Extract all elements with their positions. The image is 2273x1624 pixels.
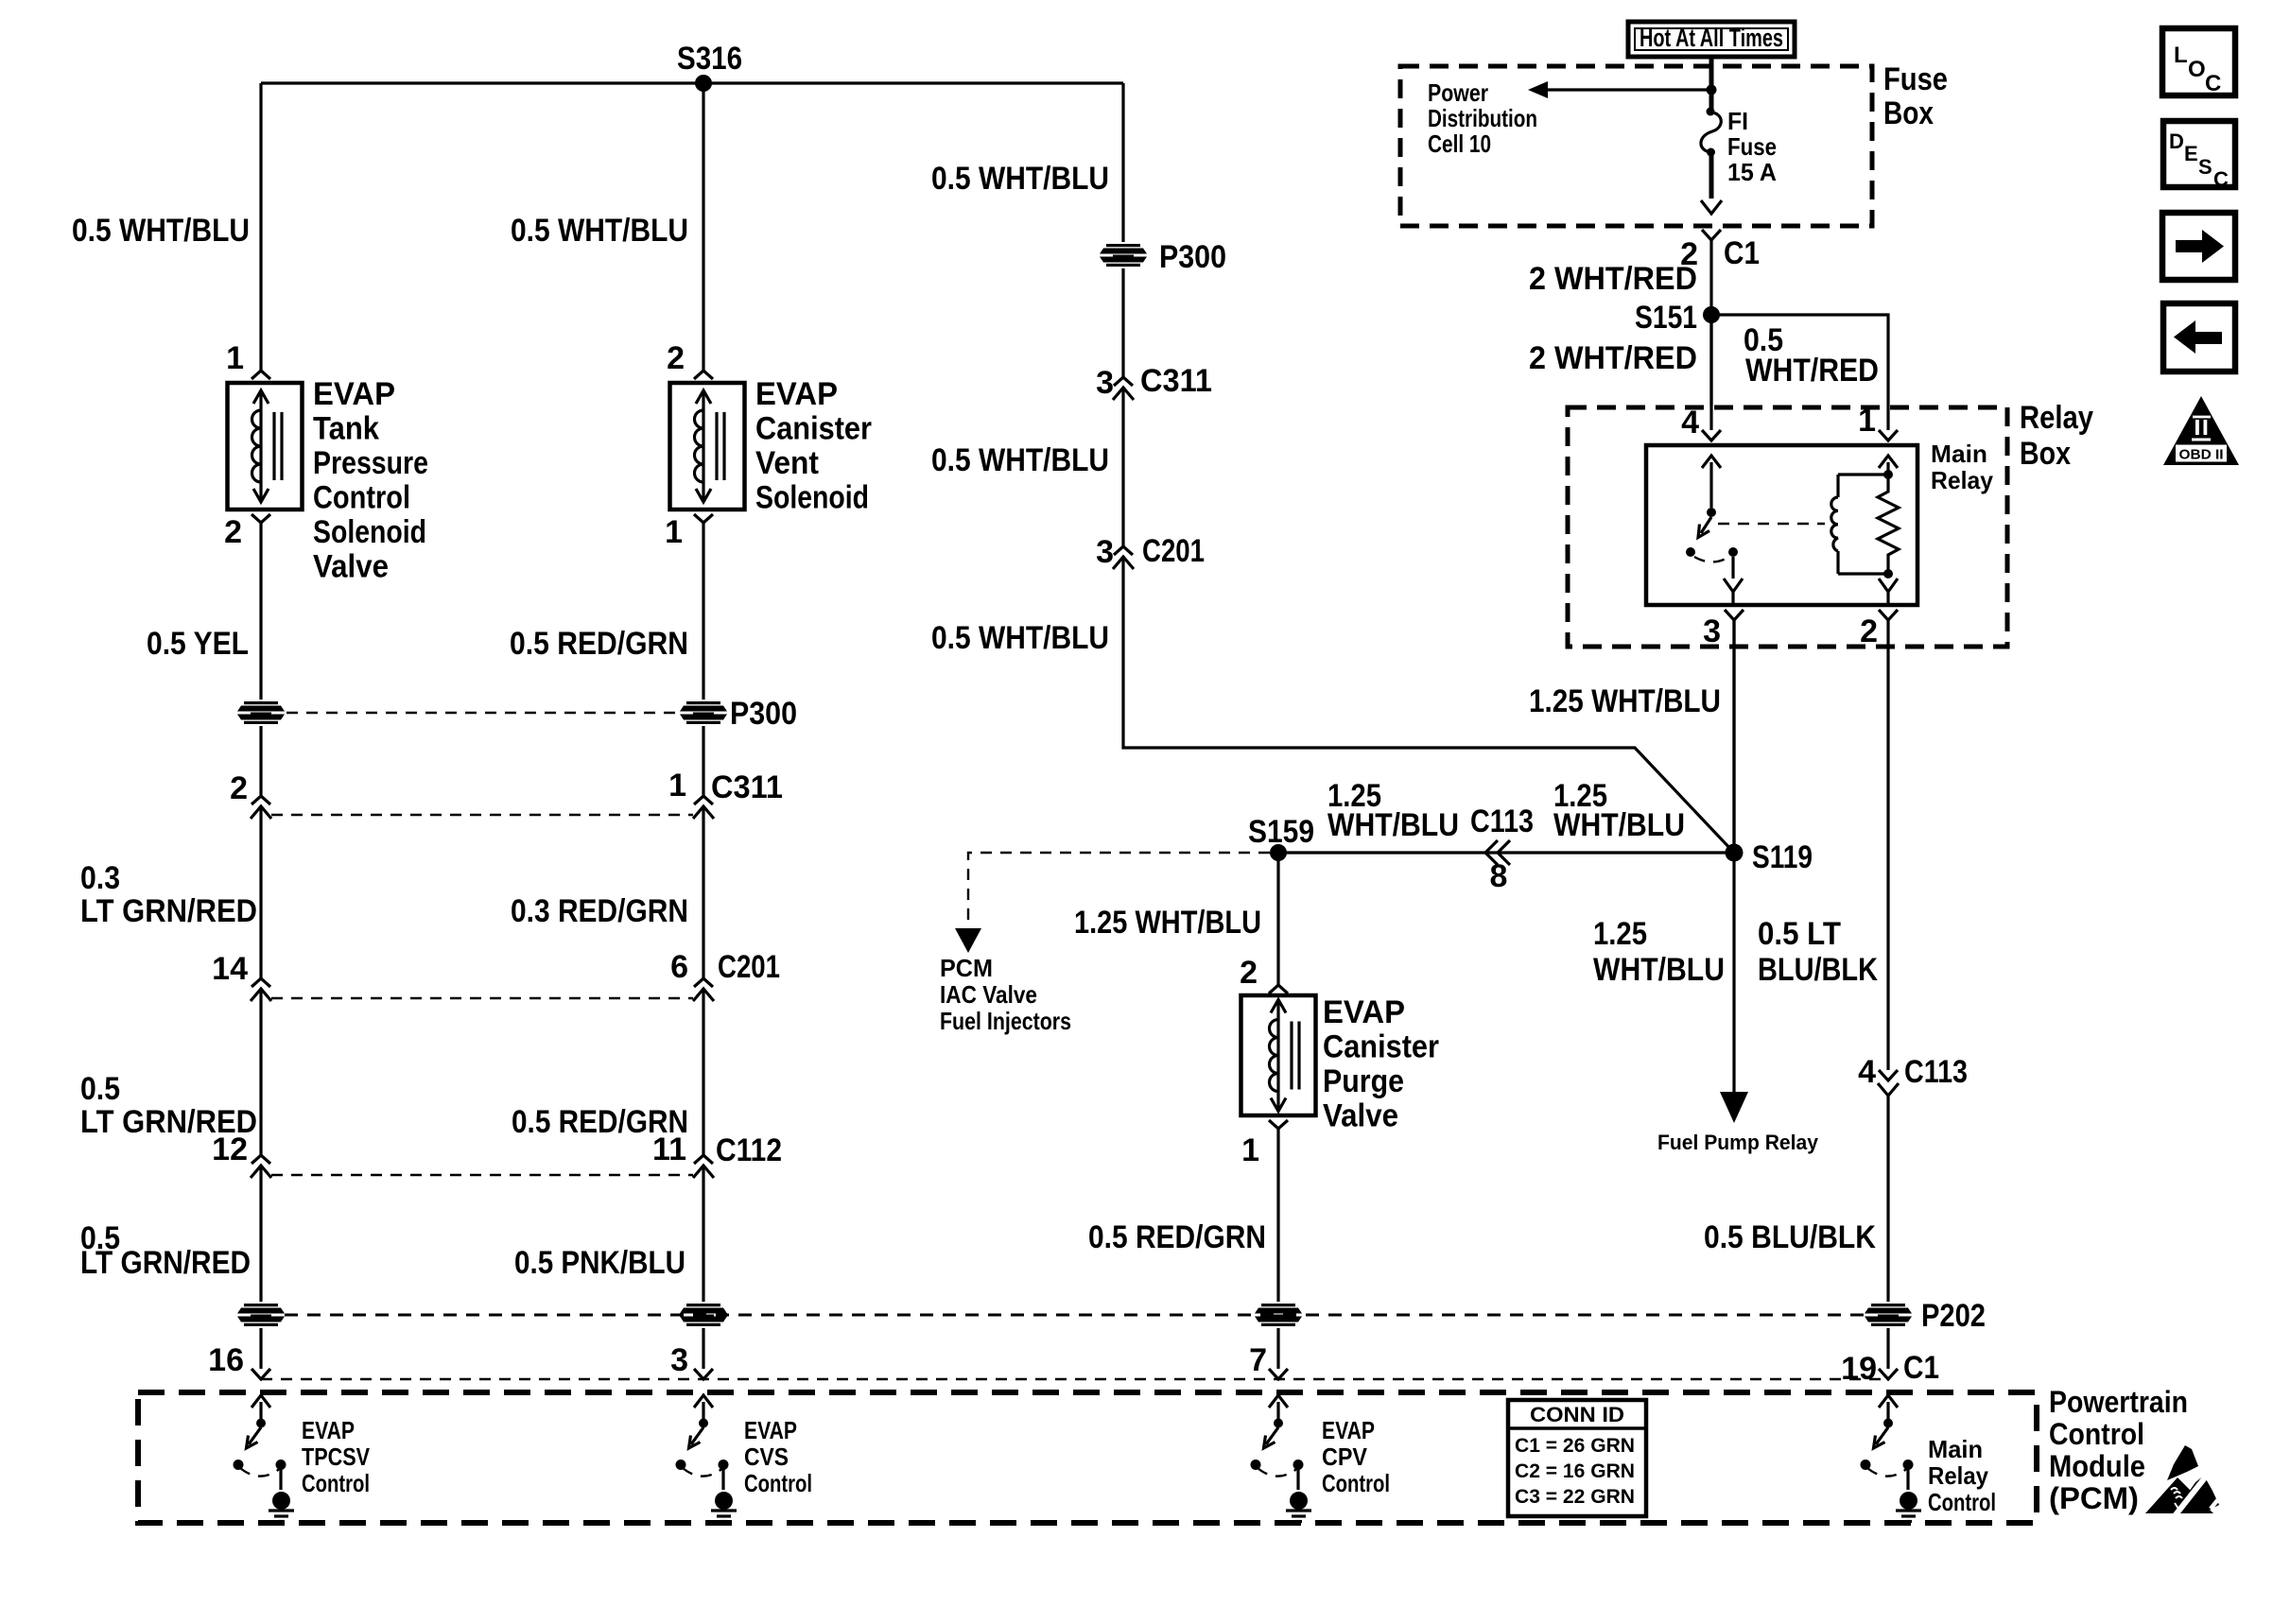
wire: col A C201 to C112 row, 0.5 LT GRN/RED [259,989,262,1155]
icon OBD II triangle [2163,396,2239,465]
icon arrow right [2162,213,2235,280]
EVAP TPCSV Control driver switch inside PCM [234,1395,295,1522]
icon arrow left [2163,303,2235,371]
svg-text:1: 1 [1241,1132,1259,1168]
wire: C113 pin 4 down to PCM pin 19, 0.5 BLU/BLK [1886,1096,1889,1369]
main relay body [1646,445,1917,605]
svg-text:Pressure: Pressure [313,445,428,481]
svg-text:12: 12 [212,1132,248,1167]
arrowhead (solid) down to PCM IAC note [955,928,981,953]
wire: S151 down to relay pin 4 [1709,323,1712,430]
svg-text:Powertrain: Powertrain [2049,1385,2188,1419]
svg-text:Relay: Relay [1928,1461,1988,1490]
svg-text:0.5 BLU/BLK: 0.5 BLU/BLK [1704,1219,1876,1255]
wire: S119 down to Fuel Pump Relay arrow, 1.25 WHT/BLU [1732,861,1735,1092]
solenoid valve TPCSV (EVAP Tank Pressure Control Solenoid Valve) [228,383,303,510]
wire: thin dashed PCM pin row [261,1378,1888,1380]
svg-text:7: 7 [1249,1342,1267,1378]
wire: dashed connector line C112 row [271,1174,693,1176]
svg-text:C1: C1 [1724,235,1760,271]
svg-text:Main: Main [1931,440,1987,468]
svg-text:S316: S316 [677,41,742,77]
svg-text:Box: Box [2020,436,2071,472]
svg-text:1: 1 [665,514,683,550]
svg-text:P300: P300 [1159,239,1226,275]
wire: col A from top bus to TPCSV pin 1 [259,83,262,371]
svg-text:Purge: Purge [1323,1063,1404,1099]
node S119 [1726,844,1744,862]
svg-text:0.5 PNK/BLU: 0.5 PNK/BLU [514,1245,685,1281]
svg-text:2 WHT/RED: 2 WHT/RED [1529,261,1697,297]
svg-text:Solenoid: Solenoid [313,514,426,550]
connector P202 pass-through on col B [678,1302,729,1328]
wire: arrow to Power Distribution Cell 10 [1541,88,1711,91]
svg-text:Control: Control [302,1469,370,1497]
svg-text:C201: C201 [1142,533,1205,569]
connector P202 pass-through on col D [1253,1302,1304,1328]
relay box (dashed) [1568,407,2007,647]
svg-text:0.3: 0.3 [80,860,120,896]
svg-text:OBD II: OBD II [2179,447,2224,463]
wire: col D from S159 down to CPV pin 2, 1.25 WHT/BLU [1276,853,1279,985]
svg-text:C113: C113 [1904,1054,1968,1090]
svg-text:4: 4 [1858,1054,1876,1090]
PCM box (dashed) [138,1392,2037,1523]
wire: col B C112 to PCM pin 3, 0.5 PNK/BLU [702,1166,704,1369]
svg-text:WHT/RED: WHT/RED [1745,353,1879,389]
node S151 [1703,306,1720,323]
svg-text:2: 2 [1240,955,1258,991]
svg-text:Relay: Relay [2020,400,2093,436]
svg-text:2: 2 [230,770,248,806]
svg-text:Fuse: Fuse [1727,132,1777,161]
svg-text:Main: Main [1928,1435,1983,1463]
svg-text:Power: Power [1428,78,1488,107]
svg-text:3: 3 [1703,613,1721,649]
wire: col B from S316 to CVS pin 2 [702,83,704,371]
svg-text:Tank: Tank [313,411,379,447]
svg-text:Module: Module [2049,1449,2145,1483]
svg-text:CONN ID: CONN ID [1530,1403,1624,1426]
wire: col A C311 to C201 row, 0.3 LT GRN/RED [259,806,262,978]
svg-text:C1 = 26 GRN: C1 = 26 GRN [1515,1435,1635,1457]
wire: col C C201 down, turn right at y791, diagonal into S119 [1123,557,1734,853]
connector P300 pass-through on col A [235,700,286,726]
svg-text:2: 2 [224,514,242,550]
svg-text:3: 3 [670,1342,688,1378]
svg-text:Relay: Relay [1931,466,1994,494]
svg-text:Control: Control [744,1469,812,1497]
wire: relay pin 2 down to C113 pin 4, 0.5 LT BLU/BLK [1886,620,1889,1070]
wire: col B pin 1 down to C311 row, 0.5 RED/GRN [702,523,704,796]
svg-text:PCM: PCM [940,954,993,982]
svg-text:14: 14 [212,951,248,987]
svg-text:16: 16 [208,1342,244,1378]
svg-text:Control: Control [313,480,410,516]
svg-text:TPCSV: TPCSV [302,1443,371,1471]
svg-text:C311: C311 [1140,363,1212,399]
node S159 [1270,844,1287,861]
svg-text:1: 1 [1858,403,1876,439]
connector P300 pass-through on col C [1098,242,1149,268]
Main Relay Control driver switch inside PCM [1861,1395,1922,1522]
relay resistor [1878,475,1899,574]
wire: C1 down to S151, 2 WHT/RED [1709,240,1712,406]
svg-text:0.5 WHT/BLU: 0.5 WHT/BLU [931,442,1109,478]
relay coil rails [1838,475,1888,574]
svg-text:0.3 RED/GRN: 0.3 RED/GRN [511,893,688,929]
ESD warning symbol [2167,1445,2198,1480]
relay switch (pin 4 to pin 3) [1702,456,1721,468]
svg-text:Valve: Valve [1323,1098,1398,1134]
svg-text:C311: C311 [711,769,783,805]
svg-text:S159: S159 [1248,814,1314,850]
svg-text:IAC Valve: IAC Valve [940,980,1037,1009]
svg-text:C1: C1 [1903,1350,1939,1386]
svg-text:Box: Box [1883,95,1934,131]
svg-text:BLU/BLK: BLU/BLK [1758,952,1878,988]
svg-text:8: 8 [1490,858,1508,894]
connector P300 pass-through on col B [678,700,729,726]
svg-text:C112: C112 [716,1132,782,1168]
svg-text:Control: Control [1322,1469,1390,1497]
EVAP CVS Control driver switch inside PCM [676,1395,737,1522]
svg-text:P300: P300 [730,696,797,732]
connector P202 pass-through on col G [1863,1302,1914,1328]
svg-text:0.5 WHT/BLU: 0.5 WHT/BLU [72,213,250,249]
wire: dashed connector line P300 row [286,712,678,714]
wire: col B C201 to C112 row, 0.5 RED/GRN [702,989,704,1155]
svg-text:1: 1 [668,768,686,803]
svg-text:0.5 LT: 0.5 LT [1758,916,1841,952]
svg-text:0.5: 0.5 [80,1071,120,1107]
svg-text:WHT/BLU: WHT/BLU [1553,807,1685,843]
svg-text:3: 3 [1096,365,1114,401]
solenoid valve CVS (EVAP Canister Vent Solenoid) [670,383,745,510]
fuse FI 15 A [1707,108,1715,116]
svg-text:19: 19 [1841,1351,1877,1387]
svg-text:4: 4 [1681,405,1699,441]
relay pin 2 [1879,610,1898,620]
svg-text:WHT/BLU: WHT/BLU [1327,807,1459,843]
svg-text:L: L [2174,43,2188,68]
svg-text:C2 = 16 GRN: C2 = 16 GRN [1515,1460,1635,1482]
wire: fuse output down to fuse box edge [1709,153,1714,199]
svg-text:2: 2 [667,340,685,376]
relay pin 3 [1725,610,1744,620]
svg-text:0.5 RED/GRN: 0.5 RED/GRN [510,626,688,662]
wire: S151 branch right and down to relay pin 1, 0.5 WHT/RED [1711,315,1888,430]
wire: col C from top bus down to C311 [1121,83,1124,377]
svg-text:Vent: Vent [755,445,819,481]
svg-text:2: 2 [1860,613,1878,649]
svg-text:O: O [2188,57,2206,82]
wire: horizontal 1.25 WHT/BLU from S159 to S119 [1278,851,1734,854]
svg-text:Valve: Valve [313,549,389,585]
wire: col A pin 2 down to C311 row, 0.5 YEL [259,523,262,796]
relay pin1 internal arrow [1879,456,1898,468]
wire: col B C311 to C201 row, 0.3 RED/GRN [702,806,704,978]
svg-text:CPV: CPV [1322,1443,1368,1471]
CONN ID table [1508,1400,1646,1516]
svg-text:LT GRN/RED: LT GRN/RED [80,1245,251,1281]
node S316 [695,75,712,92]
svg-text:Fuse: Fuse [1883,61,1948,97]
svg-text:EVAP: EVAP [302,1416,355,1444]
icon LOC [2162,28,2235,95]
connector C1 pin 2 junction below fuse box [1702,230,1721,240]
svg-text:11: 11 [652,1132,686,1167]
svg-text:C113: C113 [1470,803,1534,839]
svg-text:15 A: 15 A [1727,158,1777,186]
svg-text:Hot At All Times: Hot At All Times [1640,24,1783,52]
svg-text:3: 3 [1096,534,1114,570]
svg-text:EVAP: EVAP [313,376,395,412]
svg-text:1: 1 [226,340,244,376]
wire: dashed connector line P202 row [285,1314,1865,1317]
wire: dashed branch from S159 to PCM IAC Valve / Fuel Injectors [968,853,1270,928]
svg-text:D: D [2169,130,2184,153]
svg-text:CVS: CVS [744,1443,789,1471]
svg-text:(PCM): (PCM) [2049,1481,2139,1515]
svg-text:1.25: 1.25 [1593,916,1647,952]
svg-text:2 WHT/RED: 2 WHT/RED [1529,340,1697,376]
wire: S119 up to Main Relay pin 3 [1732,619,1735,844]
svg-text:Distribution: Distribution [1428,104,1537,132]
svg-text:0.5 WHT/BLU: 0.5 WHT/BLU [931,620,1109,656]
svg-text:Canister: Canister [755,411,872,447]
svg-text:EVAP: EVAP [755,376,838,412]
label box: Hot At All Times [1628,22,1795,57]
svg-text:WHT/BLU: WHT/BLU [1593,952,1725,988]
svg-text:Canister: Canister [1323,1029,1439,1065]
relay operate dashed link [1718,523,1825,525]
relay coil [1836,475,1839,574]
svg-text:1.25 WHT/BLU: 1.25 WHT/BLU [1529,683,1721,719]
svg-text:EVAP: EVAP [744,1416,797,1444]
svg-text:Cell 10: Cell 10 [1428,130,1491,158]
svg-text:1.25 WHT/BLU: 1.25 WHT/BLU [1074,905,1261,941]
wire: hot feed into fuse box [1709,57,1714,112]
svg-text:0.5 YEL: 0.5 YEL [147,626,249,662]
svg-text:C: C [2213,167,2229,191]
svg-text:0.5 WHT/BLU: 0.5 WHT/BLU [511,213,688,249]
svg-text:Fuel Pump Relay: Fuel Pump Relay [1657,1131,1819,1154]
svg-text:Solenoid: Solenoid [755,480,869,516]
svg-text:LT GRN/RED: LT GRN/RED [80,893,257,929]
svg-text:Control: Control [2049,1417,2144,1451]
wire: dashed connector line C311 row [271,814,693,816]
wire: col C C311 to C201, 0.5 WHT/BLU [1121,388,1124,546]
svg-text:S119: S119 [1752,839,1813,875]
fuse box (dashed) [1400,66,1872,226]
connector P202 pass-through on col A [235,1302,286,1328]
wire: top horizontal 0.5 WHT/BLU bus from col A to col C [261,81,1123,84]
svg-text:C: C [2205,71,2221,96]
wire: relay pin 3 down to S119 (drawn above) [1732,620,1735,844]
icon DESC [2163,121,2235,187]
svg-text:EVAP: EVAP [1323,994,1405,1030]
wire: col A C112 to PCM pin 16, 0.5 LT GRN/RED [259,1166,262,1369]
svg-text:Control: Control [1928,1488,1996,1516]
svg-text:EVAP: EVAP [1322,1416,1375,1444]
svg-text:0.5 WHT/BLU: 0.5 WHT/BLU [931,161,1109,197]
svg-text:Fuel Injectors: Fuel Injectors [940,1007,1071,1035]
svg-text:FI: FI [1727,107,1748,135]
svg-text:6: 6 [670,949,688,985]
wire: col D CPV pin 1 down to PCM pin 7, 0.5 RED/GRN [1276,1129,1279,1369]
svg-text:S151: S151 [1635,300,1697,336]
svg-text:0.5 RED/GRN: 0.5 RED/GRN [1088,1219,1266,1255]
svg-text:C201: C201 [718,949,780,985]
svg-text:E: E [2184,142,2198,165]
svg-text:C3 = 22 GRN: C3 = 22 GRN [1515,1486,1635,1508]
arrowhead (solid) to Fuel Pump Relay [1720,1092,1748,1123]
wire: dashed connector line C201 row [271,997,693,999]
EVAP CPV Control driver switch inside PCM [1251,1395,1312,1522]
svg-text:P202: P202 [1921,1298,1986,1334]
svg-text:S: S [2198,155,2212,179]
solenoid valve CPV (EVAP Canister Purge Valve) [1241,995,1316,1115]
